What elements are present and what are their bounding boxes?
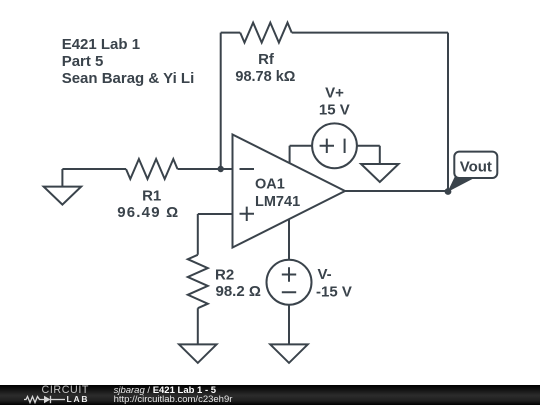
svg-text:Vout: Vout	[460, 159, 492, 176]
svg-text:-15 V: -15 V	[316, 283, 352, 300]
svg-text:E421 Lab 1: E421 Lab 1	[62, 36, 140, 53]
svg-text:R1: R1	[142, 188, 161, 205]
svg-text:98.2 Ω: 98.2 Ω	[216, 283, 261, 300]
svg-text:Rf: Rf	[258, 51, 275, 68]
svg-text:Part 5: Part 5	[62, 53, 104, 70]
svg-text:Sean Barag & Yi Li: Sean Barag & Yi Li	[62, 70, 195, 87]
svg-text:OA1: OA1	[255, 176, 285, 192]
svg-text:V-: V-	[318, 266, 332, 283]
svg-text:15 V: 15 V	[319, 102, 350, 119]
svg-text:R2: R2	[215, 266, 234, 283]
svg-text:LM741: LM741	[255, 194, 300, 210]
svg-text:V+: V+	[325, 85, 344, 102]
svg-text:98.78 kΩ: 98.78 kΩ	[235, 69, 295, 85]
svg-text:96.49 Ω: 96.49 Ω	[117, 204, 179, 221]
